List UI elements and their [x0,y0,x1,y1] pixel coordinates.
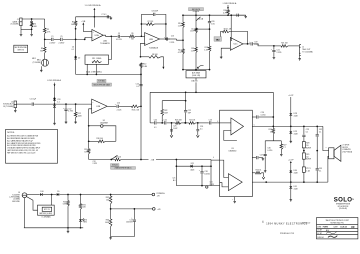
amplifier U3-A triangle [231,118,244,135]
wire C12 top [65,104,67,109]
resistor R17 1.0M [223,30,230,33]
svg-text:+VB: +VB [81,21,86,23]
wire C12 bottom [65,111,67,121]
wire U3A fb [224,130,237,140]
svg-text:B.0: B.0 [173,180,176,182]
wire C21 bottom [273,52,275,56]
switch jack lever [27,197,33,201]
junction bypass bus [272,116,274,118]
junction R23/R24 [184,122,186,124]
capacitor C32 0.1 [316,134,319,136]
junction bus a [182,14,184,16]
svg-text:4: 4 [217,121,218,123]
junction C18 top [201,165,203,167]
svg-text:A⁄V: A⁄V [325,229,330,232]
wire R29 down [303,159,305,167]
junction pot r [209,69,211,71]
terminal +VB [153,208,156,211]
wire pi row [162,100,185,102]
svg-text:C7 0.1: C7 0.1 [101,14,106,16]
svg-text:NOTES:: NOTES: [7,132,15,134]
wire C19 right [253,44,274,46]
svg-text:C19: C19 [93,161,96,163]
capacitor C21B 1uF [164,121,166,124]
wire LOP down [290,97,292,113]
svg-text:C9: C9 [118,33,120,35]
junction spk b [316,126,318,128]
wire R30 top [67,195,69,201]
LED CR6 [79,219,82,221]
capacitor C18 100/16 [200,171,203,173]
net label TALK BAL [214,37,222,41]
wire mic to ground [40,66,42,69]
svg-text:©: © [262,220,264,224]
wire pot to bus [195,82,197,92]
wire C30 bottom [264,156,266,169]
junction C22 [185,122,187,124]
junction bus c [209,14,211,16]
wire colA top [182,15,184,22]
svg-text:TALKIT ELECTRONICS CORP: TALKIT ELECTRONICS CORP [326,219,350,222]
svg-text:D2: D2 [78,58,80,60]
junction talk out [273,45,275,47]
svg-text:0.1: 0.1 [319,131,321,133]
arrow node loud ridge [93,9,95,17]
diode D10 [40,193,42,196]
wire loop top right [103,126,116,142]
svg-text:100/16: 100/16 [204,174,209,176]
diode D5 [57,193,59,196]
notes box [6,130,58,164]
wire battery pos [51,195,53,206]
resistor R19 1.2K [208,46,211,51]
ground R12 [75,121,77,122]
svg-text:4.7/35: 4.7/35 [68,111,73,113]
wire loop left down b [88,154,90,160]
junction mid/gain [140,74,142,76]
junction mic line [84,39,86,41]
svg-text:TL064ACN: TL064ACN [100,42,110,45]
capacitor C21 2.2/35 [272,49,275,51]
wire D31 gnd [290,189,292,199]
svg-text:(HANDSFREE/TALK): (HANDSFREE/TALK) [115,167,132,170]
wire handsfree line a2 [121,159,149,161]
capacitor C30 0.1/50 [264,153,267,155]
junction D30 rail [290,181,292,183]
switch SW-1A lever [196,17,201,21]
wire R18 to bus [227,14,229,17]
resistor R26 51 [272,129,275,135]
junction colA u2b [182,39,184,41]
capacitor C17 100/16V [133,219,136,221]
junction D3 top [54,97,56,99]
connector J6 power jack [22,193,27,198]
wire R8 left [141,56,150,58]
wire out to C13 [166,38,170,40]
wire C24 stub2 [197,131,199,135]
diode D21 [191,165,193,168]
wire LED gnd [80,222,82,228]
capacitor C1 2.2/35V [51,38,53,41]
wire J2 gnd [299,56,301,58]
wire OUT2 [252,181,328,183]
resistor R25 51 [256,172,262,175]
ground arrow C25 [170,135,173,137]
switch label MIC MUTE [189,8,204,11]
wire C18 top [201,166,203,171]
wire R12 bottom [75,118,77,121]
op-amp U2A [92,30,103,41]
svg-text:1/25: 1/25 [211,23,214,25]
wire mixer in [177,39,184,40]
junction mute branch [176,159,178,161]
junction R8 node [140,56,142,58]
junction pi row [185,100,187,102]
junction C25 [171,122,173,124]
junction gain a [86,74,88,76]
ground C27 [262,158,264,159]
wire mid vertical upper [140,42,142,44]
svg-text:TOP ADJ: TOP ADJ [98,80,105,83]
junction U2A out [110,35,112,37]
junction R31 [80,194,82,196]
wire mute right vert [210,160,212,186]
capacitor C11 1uF [31,103,33,106]
wire R12 top [75,104,77,112]
ground below MK1 [40,69,42,70]
svg-text:1.1: 1.1 [57,101,59,103]
wire rail to R7 [75,17,77,21]
svg-text:U2B: U2B [149,39,154,41]
capacitor C9 0.1/25V [117,35,119,38]
junction comp out [140,105,142,107]
wire D29 stub [290,126,292,131]
junction u2c [230,14,232,16]
wire bus gnd stub [67,228,69,230]
svg-text:D10: D10 [40,191,43,193]
wire U2C - in [221,48,230,56]
connector J2 (talk out) [299,45,301,56]
wire C11 to diodes [34,103,91,105]
svg-text:+LOP: +LOP [288,159,294,161]
svg-text:R17 1.0M: R17 1.0M [224,29,232,31]
svg-text:CA3280E: CA3280E [100,121,109,124]
wire C24 stub [197,123,199,129]
junction C24 node [197,122,199,124]
wire C13 to mixer [168,38,176,40]
ground U2C inv [220,56,222,57]
wire to R23 [167,122,176,124]
capacitor C15 0.1 [236,14,238,17]
junction VB [110,208,112,210]
svg-text:C5: C5 [60,36,62,38]
svg-text:15A 96K: 15A 96K [191,80,198,83]
capacitor C23 1/1M [209,121,211,124]
wire loop bottom right [105,140,116,142]
wire R32 top [110,195,112,197]
wire U3A + in [220,122,231,124]
wire D3 to line [54,101,56,104]
svg-text:R13 2.2K: R13 2.2K [132,109,140,111]
junction pot/fb bus [195,91,197,93]
wire C22 bottom [185,113,187,123]
wire shutdown pin [211,159,220,161]
wire mid vert below C10 [140,86,142,106]
wire C20 to C21b [157,122,164,124]
wire pi left down [161,101,163,110]
svg-text:2.2/35V: 2.2/35V [49,43,56,45]
wire colB mid [195,33,197,48]
wire R11 stub left [86,64,88,74]
wire R26 down [272,134,274,141]
svg-text:R24 1K: R24 1K [189,120,196,122]
svg-text:SW-1A: SW-1A [198,17,204,20]
svg-text:R19: R19 [84,149,87,151]
capacitor C16 2.2/25 [116,105,118,108]
wire colC bottom [209,51,211,69]
capacitor C25 100P [170,129,173,131]
wire down to R5 [44,19,46,28]
svg-text:U2C: U2C [234,44,239,46]
svg-text:LM4863D: LM4863D [229,150,237,152]
wire C29 top [303,126,305,134]
wire C16 to R13 [119,105,131,107]
junction SW1B [110,159,112,161]
junction spk d [316,181,318,183]
capacitor C26B 0.1/50 [256,115,258,118]
svg-text:R8 56K: R8 56K [152,54,159,56]
ground J5 [14,109,16,110]
svg-text:TL064ACN: TL064ACN [149,46,159,49]
wire U2C + in [230,15,232,41]
wire mic signal line [45,38,51,40]
ground arrow R25 [262,177,265,179]
wire top rail [76,16,111,18]
svg-text:OK: OK [351,226,355,229]
svg-text:2.2/35V: 2.2/35V [58,43,65,45]
svg-text:0.1: 0.1 [306,131,308,133]
svg-text:LOUD RIDGE A: LOUD RIDGE A [223,2,237,5]
wire fb top C8 [141,13,153,15]
junction diode D2 top [75,56,77,58]
wire D10 to batt node [43,194,57,196]
wire J1 shield to R4 [21,28,32,30]
wire C9 to R9 [120,35,129,37]
wire spk top feed [323,126,329,150]
svg-text:2.2/25: 2.2/25 [117,110,122,112]
battery BT1 [42,207,52,211]
capacitor C12 4.7/35 [64,108,67,110]
junction loop bl [88,140,90,142]
svg-text:C8 100P: C8 100P [152,11,159,13]
svg-text:SW-1B: SW-1B [112,165,118,167]
junction pi bus [185,91,187,93]
wire R23-R24 [181,122,189,124]
capacitor C27 0.1 [256,156,258,159]
resistor R28 1 ohm box [302,142,305,148]
resistor R29 1 ohm box [302,153,305,159]
resistor R14 4.7K [182,49,185,54]
capacitor C22 33P [184,110,187,112]
svg-text:P.MRE: P.MRE [323,226,329,228]
junction fb/out1 [272,126,274,128]
wire C5 to opamp [63,37,92,39]
speaker LS1 [329,148,334,159]
resistor R11B 1.0K [195,47,198,52]
wire R7 to mic line [75,26,77,39]
svg-text:0.1: 0.1 [200,129,202,131]
wire C23 to U3 [212,122,220,124]
ground below R4 [31,33,33,34]
junction R29 top [303,150,305,152]
ground clamp [54,122,56,123]
svg-text:C11 1µF: C11 1µF [30,99,36,101]
svg-text:DWG NO: DWG NO [317,237,324,239]
wire U1B inv stub [89,109,92,126]
label box MICROPHONE INPUTS [14,45,28,52]
wire handsfree line b [156,159,211,161]
wire R25 pin [252,172,255,174]
svg-text:BT1 9V: BT1 9V [44,209,51,211]
wire bus to C15 [231,14,236,16]
switch label HANDSFREE [111,167,136,170]
wire R13 to vert [139,105,141,107]
wire J5 to C11 [17,103,32,105]
wire R5 to mic line [44,34,46,40]
wire mute stub [195,11,197,16]
IC U3 LM4863 outline [220,110,253,196]
wire C32 top [316,126,318,134]
wire pi right up [185,92,187,110]
box R11 select [85,55,109,64]
wire loop top left [89,125,101,127]
diode D3 [53,99,56,101]
wire R31 top [80,195,82,204]
ground C30 [264,170,266,171]
wire D5 right [59,194,152,196]
svg-text:2.2/35: 2.2/35 [170,42,175,44]
wire mid vert to switch [140,106,142,159]
junction bus r30 [67,227,69,229]
resistor R12A 1.0K [182,22,185,27]
resistor R11 1MEG [92,61,102,63]
ground arrow C24 [196,135,199,137]
wire C32 mid [316,137,318,169]
ground VB divider [110,237,112,238]
wire D28 to rail [290,116,292,127]
wire U1B out [107,105,116,107]
diode D2 [74,57,77,59]
capacitor C8 100P [153,13,155,16]
junction rail/ridge [94,16,96,18]
wire C17 gnd join [111,236,135,238]
junction fb left [141,23,143,25]
adjust label MICROPHONE GAIN [92,83,112,86]
title block outline [317,218,358,239]
capacitor C13 2.2/35 [165,37,167,40]
svg-text:MICROPHONE GAIN: MICROPHONE GAIN [94,83,111,86]
wire colC mid [209,23,211,46]
op-amp U2C [230,38,243,51]
wire jack gnd [24,198,26,228]
wire C30 top [264,141,266,154]
wire battery neg [33,200,38,210]
wire U2A output [103,35,111,36]
resistor R19B [87,149,90,154]
capacitor C29 0.1 [302,134,305,136]
junction R22 [161,122,163,124]
junction R32 [110,194,112,196]
wire D21 row [176,165,211,167]
wire R32 bottom [110,204,112,219]
resistor R30 6.8K [67,201,70,207]
svg-text:REF DES NOT USED: R8, C14, D6-: REF DES NOT USED: R8, C14, D6-D9 [7,152,35,154]
resistor R5 4.7K [43,28,46,34]
resistor R8 56K [149,56,161,59]
battery BT1 outline [38,205,55,215]
svg-text:100/16V: 100/16V [126,222,133,224]
wire mute bus [183,14,246,16]
diode D28 [289,113,292,115]
wire fb left down [220,31,222,36]
wire D30 to rail [290,173,292,182]
svg-text:2.7: 2.7 [283,147,285,149]
wire mid vert lower [140,68,142,84]
jumper circle mute [206,186,208,188]
resistor R24 1K [189,122,196,125]
capacitor C24 0.1 [196,129,199,131]
wire U3 gnd pin [234,197,236,201]
wire gain line [76,73,141,75]
svg-text:INPUTS: INPUTS [17,50,24,52]
wire mute vert [175,160,177,186]
svg-text:51: 51 [270,131,272,133]
svg-text:R18 100: R18 100 [96,138,102,140]
wire bias down to diode [75,39,77,56]
connector J1 (microphone input) [20,18,22,26]
svg-text:(T-5508B): (T-5508B) [33,62,41,64]
wire pot top [183,69,210,71]
wire ridge down [93,17,95,28]
wire R21 left [274,45,281,47]
svg-text:LOUD RIDGE A: LOUD RIDGE A [47,79,61,82]
svg-text:R7 15K: R7 15K [148,21,155,23]
diode D29 [289,131,292,133]
wire ground bus [24,227,83,229]
wire + input left [141,43,145,57]
ground C15 [245,15,247,16]
svg-text:(100K LIN): (100K LIN) [192,75,201,77]
junction battery [51,194,53,196]
wire U2B fb vertical [140,14,142,36]
junction fb/U2B in [141,35,143,37]
resistor R18B 4.7K [227,10,230,15]
wire U2B output [160,38,166,40]
junction switch line [140,159,142,161]
wire R30 bottom [67,206,69,228]
svg-text:10M: 10M [164,112,168,114]
terminal arrow below R8 [162,67,164,69]
resistor R23 10K [176,122,182,125]
svg-text:0.1: 0.1 [136,86,138,88]
wire R7 to out [154,23,166,25]
resistor R27 2.7 [280,144,283,150]
wire fb right [230,31,248,44]
junction out2 a [265,181,267,183]
power +VB to U2A [82,23,84,32]
wire U2A out right [111,35,117,37]
svg-text:8100SOLO: 8100SOLO [302,223,311,225]
